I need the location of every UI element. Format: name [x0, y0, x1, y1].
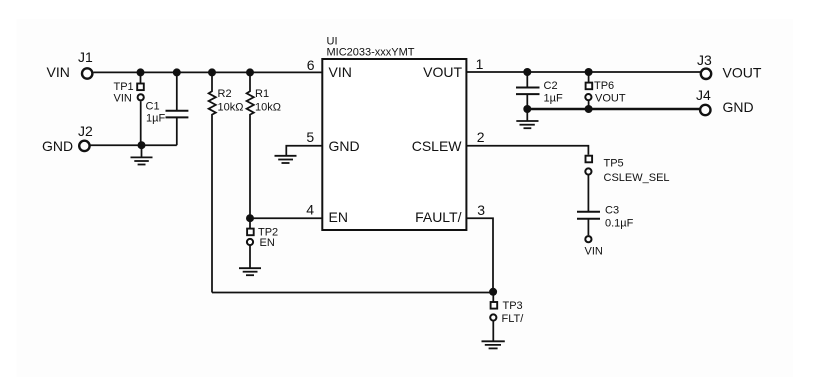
- node EN junction: [246, 214, 254, 222]
- svg-text:2: 2: [477, 129, 485, 145]
- node FLT junction: [489, 288, 497, 296]
- capacitor C3 0.1uF: [577, 205, 634, 236]
- IC U1 MIC2033-xxxYMT: [322, 35, 466, 230]
- node VOUT junction at C2: [523, 68, 531, 76]
- svg-text:GND: GND: [723, 99, 754, 115]
- resistor R2 10k: [209, 72, 244, 292]
- svg-text:1µF: 1µF: [544, 93, 563, 105]
- connector J4: [696, 87, 754, 115]
- svg-text:GND: GND: [42, 138, 73, 154]
- node VIN junction at R2: [208, 68, 216, 76]
- test point TP1: [114, 72, 144, 145]
- wire EN net R1 to U1 pin 4: [250, 217, 322, 219]
- svg-text:C1: C1: [146, 101, 160, 113]
- pin number 5: [306, 129, 314, 145]
- svg-text:EN: EN: [260, 237, 275, 249]
- resistor R1 10k: [247, 72, 281, 218]
- svg-text:C2: C2: [544, 80, 558, 92]
- svg-text:MIC2033-xxxYMT: MIC2033-xxxYMT: [327, 47, 415, 59]
- svg-text:J3: J3: [697, 52, 712, 68]
- svg-text:TP1: TP1: [114, 81, 134, 93]
- svg-text:R1: R1: [255, 88, 269, 100]
- ground (C2): [516, 109, 538, 128]
- svg-text:0.1µF: 0.1µF: [605, 218, 634, 230]
- pin number 3: [477, 202, 485, 218]
- svg-text:GND: GND: [329, 138, 360, 154]
- svg-text:10kΩ: 10kΩ: [218, 102, 244, 114]
- svg-text:6: 6: [307, 57, 315, 73]
- svg-text:CSLEW: CSLEW: [412, 138, 463, 154]
- node VIN junction at C1: [173, 68, 181, 76]
- svg-text:C3: C3: [605, 205, 619, 217]
- svg-text:J1: J1: [78, 49, 93, 65]
- connector J2: [42, 123, 93, 154]
- svg-text:VOUT: VOUT: [595, 93, 626, 105]
- test point TP6: [585, 72, 626, 109]
- test point TP2: [247, 218, 278, 268]
- svg-text:10kΩ: 10kΩ: [255, 102, 281, 114]
- pin number 1: [476, 56, 484, 72]
- wire CSLEW net U1 pin 2 to TP5: [466, 146, 588, 155]
- wire bottom rail R2 to TP3: [212, 292, 493, 294]
- pin number 2: [477, 129, 485, 145]
- wire U1 pin 5 to ground: [286, 146, 322, 156]
- wire FAULT/ net U1 pin 3 down: [466, 218, 493, 291]
- svg-text:1µF: 1µF: [146, 113, 165, 125]
- svg-text:VIN: VIN: [585, 246, 603, 258]
- svg-text:FAULT/: FAULT/: [415, 209, 462, 225]
- wire GND left rail J2 to C1: [91, 144, 177, 146]
- svg-text:J2: J2: [78, 123, 93, 139]
- node VOUT junction at TP6: [585, 68, 593, 76]
- svg-text:VOUT: VOUT: [723, 65, 762, 81]
- svg-text:3: 3: [477, 202, 485, 218]
- svg-text:VIN: VIN: [329, 64, 352, 80]
- svg-text:4: 4: [306, 202, 314, 218]
- svg-text:TP5: TP5: [604, 158, 624, 170]
- wire GND thick rail C2 to J4: [527, 108, 699, 110]
- svg-text:VIN: VIN: [47, 64, 70, 80]
- wire VIN rail J1 to U1 pin 6: [94, 71, 323, 73]
- svg-text:EN: EN: [329, 209, 348, 225]
- test point TP5: [585, 156, 669, 212]
- svg-text:FLT/: FLT/: [502, 313, 525, 325]
- ground (left, J2): [131, 145, 153, 164]
- svg-text:J4: J4: [696, 87, 711, 103]
- ground (TP2): [239, 268, 261, 275]
- connector J1: [47, 49, 94, 80]
- capacitor C2 1uF: [516, 72, 563, 109]
- node GND junction at C2: [523, 105, 531, 113]
- svg-text:1: 1: [476, 56, 484, 72]
- test point TP3: [490, 292, 524, 341]
- node VIN junction at R1: [246, 68, 254, 76]
- connector J3: [697, 52, 762, 81]
- ground (TP3): [482, 341, 505, 348]
- pin number 6: [307, 57, 315, 73]
- pin number 4: [306, 202, 314, 218]
- svg-text:UI: UI: [327, 35, 338, 47]
- svg-text:TP3: TP3: [503, 300, 523, 312]
- svg-text:VOUT: VOUT: [423, 64, 462, 80]
- svg-text:R2: R2: [218, 88, 232, 100]
- svg-text:5: 5: [306, 129, 314, 145]
- wire VOUT rail U1 pin 1 to J3: [466, 71, 701, 73]
- svg-text:CSLEW_SEL: CSLEW_SEL: [604, 172, 670, 184]
- capacitor C1 1uF: [146, 72, 189, 145]
- node GND junction at ground: [138, 141, 146, 149]
- node VIN junction at TP1: [137, 68, 145, 76]
- node VIN terminal under C3: [585, 236, 603, 257]
- svg-text:VIN: VIN: [114, 93, 132, 105]
- node GND junction at TP6: [585, 105, 593, 113]
- svg-text:TP6: TP6: [594, 80, 614, 92]
- ground (U1 pin 5): [275, 156, 297, 163]
